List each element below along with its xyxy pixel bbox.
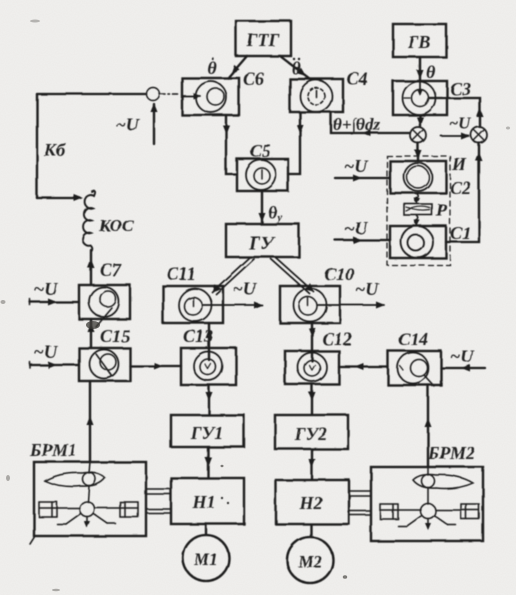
motor M1 [183, 535, 229, 581]
wire S11 excitation ~U [202, 279, 263, 309]
svg-text:С10: С10 [324, 264, 354, 284]
svg-text:М1: М1 [193, 550, 218, 569]
wire S6 to S5 [223, 115, 238, 174]
block BRM1 [29, 440, 146, 544]
dashed enclosure I/P/S1 [387, 156, 450, 265]
svg-text:БРМ1: БРМ1 [29, 440, 77, 460]
svg-text:~U: ~U [344, 156, 368, 176]
wire P to S1 [414, 216, 420, 226]
block GU2 [275, 415, 348, 449]
wire S3 feedback loop right side [429, 98, 484, 127]
wire ~U into S15 [30, 342, 79, 369]
block BRM2 [371, 443, 483, 541]
selsyn S12 [285, 329, 352, 384]
svg-text:С12: С12 [322, 329, 352, 349]
svg-text:БРМ2: БРМ2 [427, 443, 475, 463]
wire S10 to S12 (arrow down) [309, 323, 316, 361]
wire S15 to S7 (arrow up) [88, 319, 131, 348]
wire coil to S7 (arrow up) [88, 250, 95, 284]
svg-text:~U: ~U [34, 279, 58, 299]
summing node X2 [471, 127, 487, 143]
wire ~U into S1 [335, 218, 390, 244]
block U-GV (gyro vertical) [393, 24, 446, 57]
wire BRM2 to S14 (arrow up) [425, 385, 432, 467]
selsyn S4 [290, 69, 368, 112]
svg-text:С13: С13 [183, 326, 213, 346]
svg-text:Н2: Н2 [298, 493, 322, 513]
svg-text:С6: С6 [243, 69, 264, 89]
selsyn S1 [390, 223, 471, 258]
svg-text:И: И [451, 154, 467, 174]
BRM1 propeller blade (airfoil) [45, 462, 105, 502]
wire S3 to X1 (arrow down) [417, 115, 424, 126]
svg-text:~U: ~U [233, 279, 257, 299]
wire S5 to GU (theta-u) [259, 191, 283, 224]
BRM1 slider crank [39, 502, 138, 529]
svg-text:С14: С14 [398, 329, 428, 349]
wire GU1 to N1 [205, 447, 212, 477]
wire X1 to I block (arrow down) [415, 143, 422, 160]
svg-text:θ: θ [291, 58, 301, 78]
selsyn S11 [163, 264, 223, 323]
svg-text:θ: θ [207, 58, 217, 78]
svg-text:С1: С1 [450, 223, 471, 243]
summing node X1 [410, 127, 426, 143]
wire GU to S10 (double stroke) [271, 257, 317, 295]
svg-text:ГУ: ГУ [248, 233, 275, 254]
wire ~U into I [335, 156, 390, 182]
svg-text:С3: С3 [450, 79, 471, 99]
svg-text:~U: ~U [355, 279, 379, 299]
wire top-left bus from node to Kb corner [37, 94, 146, 198]
wire ~U into X2 [441, 114, 472, 140]
svg-text:Р: Р [435, 200, 448, 220]
BRM2 slider crank [380, 504, 479, 531]
wire S4 to S5 [288, 112, 304, 174]
wire S13 to GU1 [206, 385, 213, 414]
node small circle [147, 88, 160, 101]
wire GTG to S4 (theta-ddot) [280, 56, 310, 79]
wire X1 to S4 (theta + integral) [331, 112, 410, 137]
block GU1 [171, 415, 244, 447]
svg-text:М2: М2 [297, 552, 322, 571]
svg-text:С2: С2 [450, 178, 471, 198]
svg-text:С15: С15 [100, 326, 130, 346]
coil KOC [83, 191, 134, 250]
selsyn S15 [79, 348, 130, 381]
block N2 (pump) [276, 480, 349, 524]
BRM2 propeller blade (airfoil) [413, 467, 473, 504]
selsyn S13 [181, 326, 236, 385]
wire ~U into S7 [30, 279, 79, 306]
wire Kb to coil KOC [37, 195, 83, 202]
svg-text:θ+∫θdz: θ+∫θdz [333, 115, 380, 135]
selsyn S14 [388, 329, 441, 386]
svg-text:ГУ1: ГУ1 [190, 423, 223, 443]
wire S14 to S12 [339, 364, 388, 371]
svg-text:~U: ~U [344, 218, 368, 238]
wire S12 to GU2 [309, 384, 316, 414]
wire GV to S3 (theta) [417, 57, 437, 82]
wire N2 to M2 [310, 525, 312, 537]
svg-text:Кб: Кб [43, 140, 66, 160]
selsyn S5 [237, 141, 288, 191]
block U-GTG (gyro tachogenerator) [236, 21, 291, 56]
wire ~U into S14 (from right) [441, 346, 485, 372]
selsyn S7 [79, 260, 130, 327]
wire N1 to M1 [205, 524, 207, 535]
shaft BRM2 to N2 (double lines) [349, 491, 371, 515]
block N1 (pump) [171, 478, 244, 524]
wire GTG to S6 (theta-dot) [207, 56, 247, 78]
wire S13 to S11 (arrow up) [206, 323, 213, 360]
wire S1 to X2 (arrow up) [446, 143, 483, 242]
selsyn S6 [182, 69, 264, 115]
motor M2 [287, 537, 333, 583]
wire I to P [414, 194, 420, 204]
svg-text:θ: θ [426, 62, 436, 82]
wire GU2 to N2 [309, 449, 316, 479]
wire S15 to S13 [130, 363, 181, 370]
wire S10 excitation ~U [318, 279, 385, 309]
svg-text:С11: С11 [167, 264, 196, 284]
block GU (steering amplifier) [226, 224, 299, 257]
selsyn S3 [393, 79, 471, 115]
svg-text:~U: ~U [449, 114, 472, 133]
shaft BRM1 to N1 (double lines) [146, 489, 171, 513]
svg-text:С4: С4 [347, 69, 368, 89]
svg-text:~U: ~U [34, 342, 58, 362]
block P (reducer) [404, 200, 448, 220]
wire BRM1 to S15 (arrow up) [87, 381, 94, 462]
svg-text:~U: ~U [450, 346, 474, 366]
svg-text:Н1: Н1 [191, 492, 215, 512]
svg-text:ГТГ: ГТГ [246, 30, 280, 50]
wire dash-dot node to S6 [160, 93, 179, 95]
svg-text:ГВ: ГВ [407, 32, 431, 52]
svg-text:~U: ~U [116, 115, 140, 135]
svg-text:С7: С7 [100, 260, 122, 280]
svg-text:С5: С5 [250, 141, 271, 161]
wire GU to S11 (double stroke) [209, 257, 254, 295]
wire ~U into node [116, 103, 158, 144]
selsyn S10 [280, 264, 354, 323]
block I (integrator motor) [390, 154, 471, 198]
svg-text:КОС: КОС [98, 216, 134, 235]
